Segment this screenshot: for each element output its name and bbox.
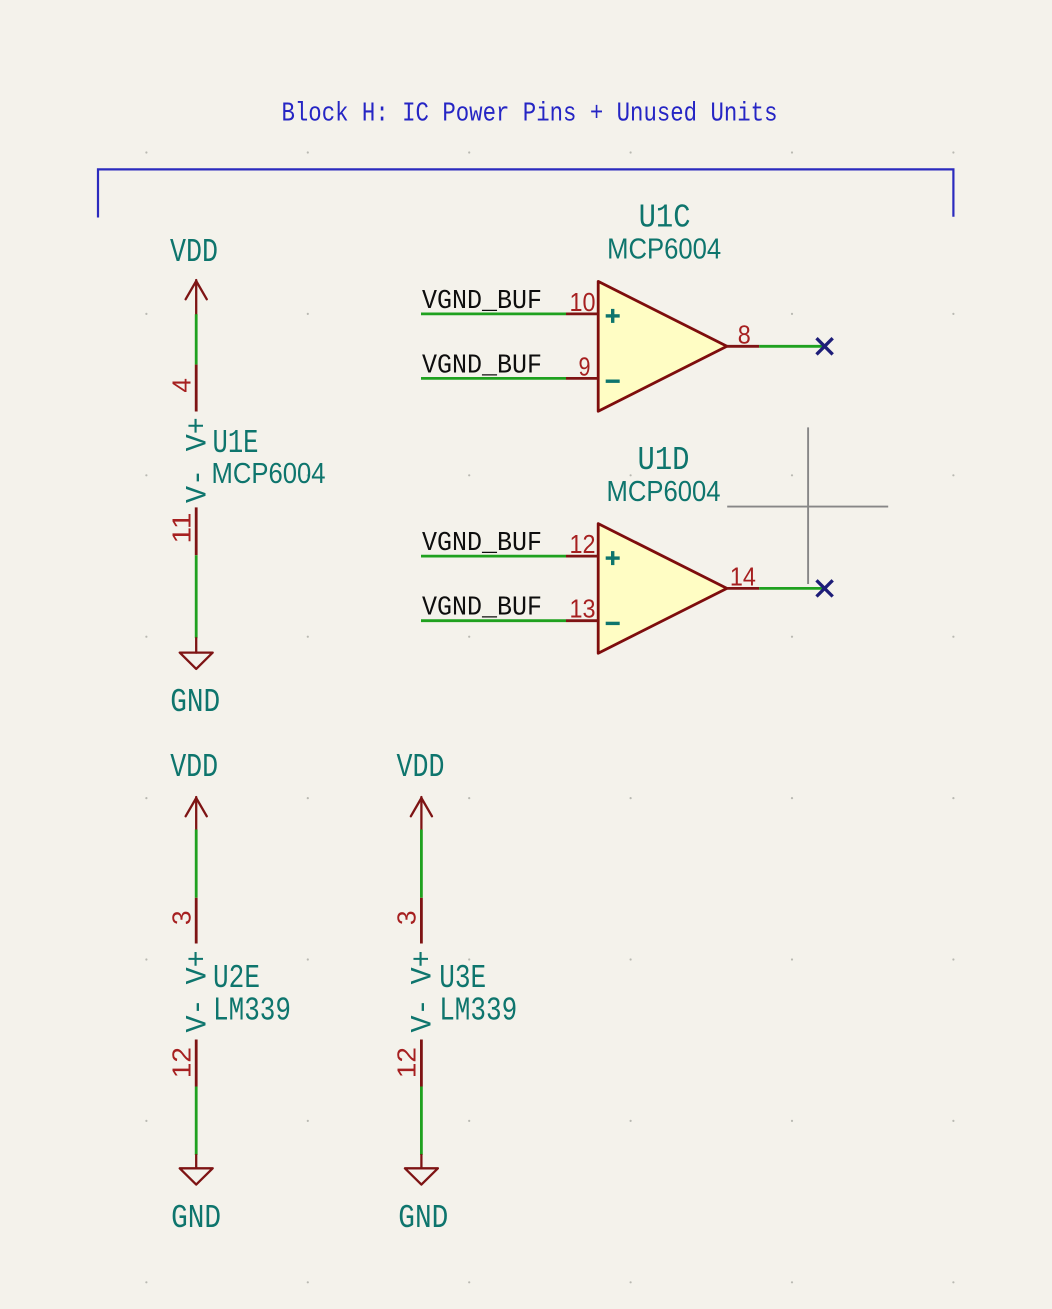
wire to U1D pin 12 — [421, 555, 566, 558]
power symbol GND (below U1E) — [180, 638, 213, 669]
op-amp U1E power unit pin 4 (V+) — [195, 365, 198, 412]
no-connect X at U1C output — [817, 338, 833, 354]
wire to U1D pin 13 — [421, 619, 566, 622]
svg-text:3: 3 — [167, 911, 197, 925]
svg-text:12: 12 — [392, 1047, 422, 1078]
power symbol VDD (U3E) — [411, 797, 432, 830]
svg-text:12: 12 — [167, 1047, 197, 1078]
svg-text:U1D: U1D — [638, 442, 690, 479]
svg-text:MCP6004: MCP6004 — [607, 234, 721, 266]
svg-text:V-: V- — [407, 999, 441, 1033]
graphic bracket line — [98, 169, 953, 217]
svg-text:V-: V- — [182, 469, 216, 503]
svg-text:MCP6004: MCP6004 — [212, 458, 326, 490]
wire VDD to U2E pin 3 — [195, 830, 198, 898]
U1C pin 9 — [566, 377, 598, 380]
wire U3E pin 12 to GND — [420, 1087, 423, 1156]
svg-text:13: 13 — [570, 594, 596, 624]
U1D pin 14 (output) — [727, 587, 759, 590]
svg-text:12: 12 — [570, 529, 596, 559]
power symbol GND (below U3E) — [405, 1155, 438, 1185]
wire from U1D output — [759, 587, 824, 590]
svg-text:V-: V- — [182, 999, 216, 1033]
svg-text:VGND_BUF: VGND_BUF — [422, 351, 542, 381]
op-amp U1D body — [598, 524, 727, 654]
U1C plus mark — [606, 309, 620, 323]
U1D pin 12 — [566, 555, 598, 558]
op-amp U1E power unit pin 11 (V-) — [195, 507, 198, 555]
U1D plus mark — [606, 551, 620, 565]
U1C minus mark — [606, 380, 620, 383]
op-amp U1C body — [598, 281, 727, 411]
svg-text:11: 11 — [167, 513, 197, 544]
svg-text:GND: GND — [171, 1200, 221, 1237]
cursor crosshair — [727, 427, 888, 584]
svg-text:GND: GND — [398, 1200, 448, 1237]
wire VDD to U3E pin 3 — [420, 830, 423, 898]
svg-text:U1E: U1E — [213, 425, 259, 462]
svg-text:V+: V+ — [182, 417, 216, 451]
U1C pin 8 (output) — [727, 345, 759, 348]
svg-text:U1C: U1C — [639, 199, 691, 236]
wire from U1C output — [759, 345, 824, 348]
power symbol VDD (U1E) — [186, 280, 207, 314]
svg-text:VGND_BUF: VGND_BUF — [422, 287, 542, 317]
svg-text:14: 14 — [730, 561, 756, 591]
U1D pin 13 — [566, 619, 598, 622]
power symbol VDD (U2E) — [186, 797, 207, 830]
svg-text:9: 9 — [579, 351, 591, 381]
svg-text:8: 8 — [738, 319, 751, 349]
svg-text:V+: V+ — [182, 950, 216, 984]
wire U2E pin 12 to GND — [195, 1087, 198, 1156]
no-connect X at U1D output — [817, 580, 833, 596]
U1D minus mark — [606, 622, 620, 625]
svg-text:VDD: VDD — [170, 234, 218, 271]
svg-text:4: 4 — [167, 378, 197, 392]
wire to U1C pin 9 — [421, 377, 566, 380]
comparator U3E power unit pin 3 (V+) — [420, 898, 423, 944]
comparator U2E power unit pin 12 (GND) — [195, 1040, 198, 1087]
wire U1E pin 11 to GND — [195, 555, 198, 638]
svg-text:VGND_BUF: VGND_BUF — [422, 529, 542, 559]
svg-text:VDD: VDD — [397, 749, 445, 786]
svg-text:Block H: IC Power Pins + Unuse: Block H: IC Power Pins + Unused Units — [282, 100, 778, 130]
svg-text:10: 10 — [570, 287, 596, 317]
wire VDD to U1E pin 4 — [195, 314, 198, 364]
power symbol GND (below U2E) — [180, 1155, 213, 1185]
svg-text:VGND_BUF: VGND_BUF — [422, 594, 542, 624]
svg-text:MCP6004: MCP6004 — [607, 476, 721, 508]
wire to U1C pin 10 — [421, 312, 566, 315]
svg-text:LM339: LM339 — [213, 993, 291, 1030]
comparator U3E power unit pin 12 (GND) — [420, 1040, 423, 1087]
U1C pin 10 — [566, 312, 598, 315]
svg-text:V+: V+ — [407, 950, 441, 984]
svg-text:GND: GND — [170, 684, 220, 721]
svg-text:VDD: VDD — [170, 749, 218, 786]
svg-text:3: 3 — [392, 911, 422, 925]
svg-text:LM339: LM339 — [439, 993, 517, 1030]
comparator U2E power unit pin 3 (V+) — [195, 898, 198, 944]
